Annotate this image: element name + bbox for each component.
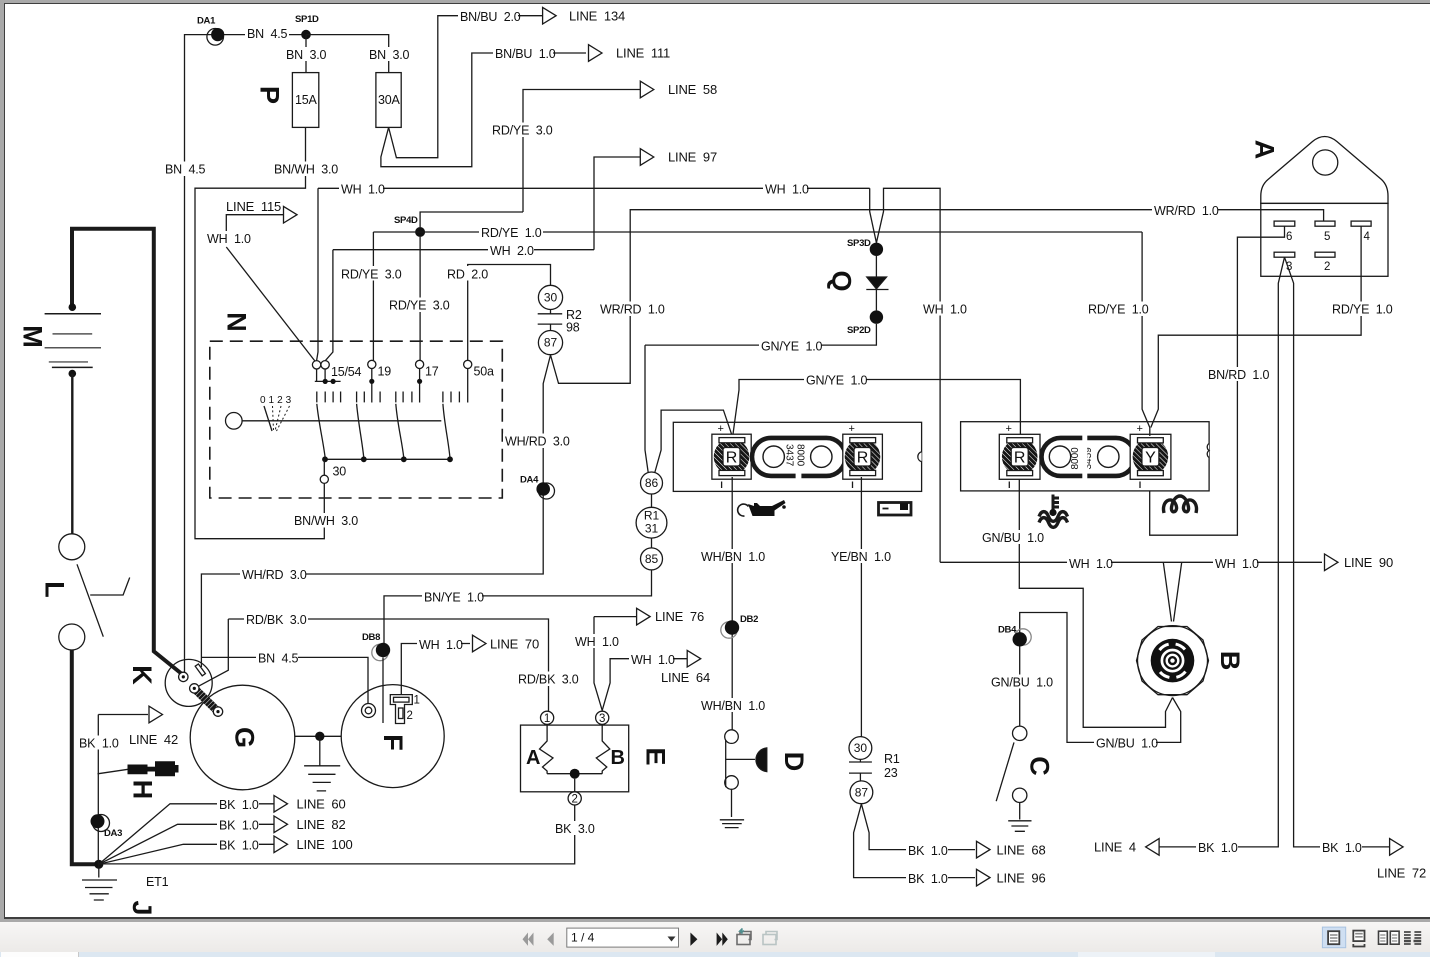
instrument cluster 1 box bbox=[673, 422, 921, 491]
pushbutton D top contact bbox=[725, 730, 739, 744]
minus mark bbox=[1139, 482, 1141, 489]
A pin 3 bbox=[1274, 252, 1295, 257]
wire BN 4.5 K to F bbox=[201, 657, 368, 703]
splice SP1D bbox=[301, 30, 311, 40]
label WR/RD 1.0 at connector A bbox=[1152, 203, 1219, 218]
wire BK 3.0 E pin2 to ET1 bbox=[99, 805, 575, 864]
label WH 1.0 bbox=[573, 634, 619, 649]
wire D to ground bbox=[720, 789, 744, 827]
wire RD/YE 1.0 horizontal long bbox=[373, 231, 1142, 233]
starter K circle bbox=[165, 659, 212, 706]
toolbar next page button bbox=[690, 933, 697, 946]
wire horn top V bbox=[1163, 562, 1181, 621]
lamp unit glow Y bbox=[1130, 434, 1171, 479]
horizontal scrollbar bbox=[0, 952, 1430, 957]
layout facing continuous bbox=[1404, 932, 1421, 944]
label RD/YE 3.0 bbox=[490, 123, 554, 138]
relay R2 terminal 30 bbox=[538, 285, 562, 309]
svg-text:1 / 4: 1 / 4 bbox=[571, 931, 595, 945]
wire G to F bbox=[295, 735, 341, 737]
ground at G-F junction bbox=[304, 736, 340, 791]
switch L top contact bbox=[59, 534, 85, 560]
wire BK fan to LINE 100 bbox=[99, 844, 274, 864]
wire 87 to LINE 96 bbox=[854, 804, 975, 878]
arrow LINE 64 bbox=[687, 650, 701, 667]
terminal 50a bbox=[464, 360, 472, 368]
lamp unit temp R bbox=[999, 434, 1040, 479]
contact comb group 3 bbox=[396, 392, 412, 403]
wire WR/RD 1.0 R2 87 to connector A pin5 bbox=[551, 210, 1324, 384]
connector DB8 bbox=[372, 644, 388, 660]
wire DA1 to SP1D bbox=[218, 34, 306, 36]
label BN/YE 1.0 bbox=[422, 590, 484, 605]
switch C top contact bbox=[1013, 726, 1027, 740]
horn B inner disc bbox=[1151, 639, 1195, 683]
wire WH 2.0 down to 15/54 right bbox=[325, 250, 333, 361]
label RD/YE 3.0 bbox=[339, 266, 403, 282]
F plug pin 1 bbox=[394, 697, 410, 702]
F plug housing bbox=[390, 695, 412, 724]
connector DB4 bbox=[1015, 629, 1031, 645]
K screw terminal 1 bbox=[179, 672, 188, 681]
instrument cluster 2 box bbox=[961, 422, 1210, 491]
arrow LINE 96 bbox=[977, 869, 991, 886]
relay R1-31 body bbox=[636, 507, 667, 538]
switch wipers bbox=[317, 404, 450, 458]
wire SP1D down to fuse 15A bbox=[305, 35, 307, 73]
wire BN/RD 1.0 pin6 to Y lamp bbox=[1150, 226, 1285, 535]
terminal 15/54 circles bbox=[312, 361, 320, 369]
label GN/YE 1.0 bbox=[804, 373, 867, 388]
A pin 4 bbox=[1351, 221, 1371, 226]
label GN/BU 1.0 bbox=[989, 675, 1053, 690]
A pin 2 bbox=[1315, 252, 1335, 257]
contact comb group 2 bbox=[357, 392, 381, 403]
label BN/WH 3.0 bbox=[272, 162, 338, 177]
label BK 1.0 bbox=[217, 818, 259, 833]
label BN 3.0 bbox=[284, 47, 327, 62]
switch bus bar bbox=[325, 458, 450, 460]
switch L blade bbox=[77, 564, 103, 636]
E pin 3 bbox=[596, 711, 609, 724]
wire LINE58 riser to SP4D bbox=[420, 212, 523, 227]
wire SP1D right down to fuse 30A bbox=[306, 35, 389, 73]
minus mark bbox=[852, 482, 854, 489]
connector A hole bbox=[1313, 150, 1338, 175]
K bolt bar bbox=[194, 688, 218, 711]
arrow LINE 100 bbox=[274, 836, 288, 853]
wire E bus to pin 2 bbox=[574, 779, 576, 792]
connector DA3 bbox=[93, 815, 110, 832]
label BK 1.0 bbox=[217, 838, 259, 853]
wire E pin3 funnel right to LINE 64 bbox=[602, 659, 687, 711]
label WH 1.0 right bbox=[1213, 556, 1259, 571]
wire BN 4.5 DA1 to K bbox=[185, 35, 218, 672]
label BK 1.0 bbox=[906, 843, 948, 858]
layout facing bbox=[1379, 931, 1388, 944]
lamp unit battery R bbox=[843, 434, 883, 479]
wire BK fan to LINE 60 bbox=[99, 804, 274, 865]
A pin 5 bbox=[1315, 221, 1335, 226]
terminal 17 bbox=[416, 360, 424, 368]
cluster 2 gauge pill bbox=[1042, 438, 1136, 476]
layout single page selected bbox=[1322, 927, 1345, 948]
label RD/BK 3.0 bbox=[244, 612, 308, 627]
A pin 6 bbox=[1274, 221, 1295, 226]
label BN 3.0 bbox=[367, 47, 410, 62]
label BN/BU 1.0 bbox=[493, 46, 556, 61]
arrow LINE 58 bbox=[640, 81, 654, 98]
arrow LINE 72 bbox=[1390, 839, 1404, 856]
label BN/BU 2.0 bbox=[458, 9, 521, 24]
node battery top bbox=[69, 303, 77, 311]
gauge circles bbox=[763, 446, 784, 467]
label RD/YE 1.0 bbox=[1086, 302, 1150, 317]
fuse 30A bbox=[376, 73, 401, 128]
cluster 2 notch bbox=[1207, 444, 1209, 458]
pushbutton D bottom contact bbox=[725, 776, 739, 790]
label WH 1.0 bbox=[417, 637, 463, 652]
wire fuse 30A funnel to LINE 134 bbox=[389, 16, 542, 158]
wire BN/YE 85 to DB8 bbox=[384, 570, 652, 643]
K fusible link bbox=[195, 664, 205, 676]
node battery bottom bbox=[69, 370, 77, 378]
plug H bbox=[128, 765, 148, 775]
label GN/BU 1.0 lower bbox=[1094, 736, 1158, 751]
horn B outer bbox=[1137, 627, 1209, 695]
wire RD 2.0 terminal 50a to relay R2 bbox=[468, 265, 551, 361]
pushbutton D blade bbox=[725, 740, 727, 787]
generator G circle bbox=[190, 685, 295, 790]
K bolt screw upper bbox=[190, 684, 199, 693]
wire SP4D down to terminal 17 bbox=[419, 237, 421, 360]
label WH 2.0 bbox=[488, 243, 534, 258]
label WH 1.0 vertical bbox=[921, 302, 967, 317]
relay R1-31 stems bbox=[651, 494, 653, 548]
wire WH 2.0 LINE 97 riser bbox=[594, 157, 640, 250]
pushbutton D actuator bbox=[726, 758, 755, 760]
E pin 1 bbox=[541, 711, 554, 724]
wire to plug H bbox=[98, 769, 129, 774]
wire 86 funnel left GN/YE bbox=[645, 345, 648, 472]
relay R1-23 terminal 30 bbox=[849, 737, 872, 760]
relay R1-31 terminal 86 bbox=[641, 472, 663, 494]
wire RD/YE 3.0 to LINE 58 bbox=[523, 90, 640, 213]
E internal bus bbox=[547, 773, 602, 775]
E pin 2 bbox=[568, 792, 581, 805]
label BN 4.5 bbox=[245, 26, 289, 41]
connector DA1 bbox=[207, 29, 224, 46]
relay R2 terminal 87 bbox=[538, 331, 562, 355]
arrow LINE 60 bbox=[274, 796, 288, 813]
cluster 1 notch bbox=[918, 452, 922, 462]
label RD/YE 3.0 bbox=[387, 298, 451, 313]
K bolt screw lower bbox=[213, 707, 222, 716]
label WH/RD 3.0 bbox=[240, 567, 307, 582]
arrow LINE 134 bbox=[543, 7, 557, 24]
wire WH diagonal into 15/54 bbox=[226, 247, 315, 361]
arrow LINE 42 bbox=[149, 706, 163, 723]
connector A body bbox=[1261, 137, 1388, 204]
sensor F circle bbox=[341, 685, 444, 788]
contact comb group 4 bbox=[443, 392, 460, 403]
label WH/BN 1.0 lower bbox=[699, 698, 765, 713]
wire GN/YE 1.0 SP2D to relay 86 bbox=[645, 324, 876, 345]
label BN/RD 1.0 bbox=[1206, 367, 1269, 382]
wire RD/YE 1.0 long riser to Y lamp plus bbox=[1142, 232, 1150, 436]
label WH 1.0 bbox=[629, 652, 675, 667]
arrow LINE 76 bbox=[637, 608, 651, 625]
wire WH/BN 1.0 lamp to DB2 to D bbox=[731, 477, 733, 730]
F nut terminal bbox=[362, 704, 376, 718]
label WH 1.0 bbox=[339, 182, 385, 197]
wire WH 2.0 horizontal bbox=[333, 249, 594, 251]
lamp unit oil R bbox=[712, 434, 751, 479]
label WR/RD 1.0 vertical bbox=[598, 302, 665, 317]
wire pin3 to LINE 4 bbox=[1158, 257, 1285, 847]
wire E pin3 funnel left bbox=[594, 617, 602, 711]
wire DA3 riser bbox=[97, 715, 99, 865]
E solenoid A zigzag bbox=[540, 724, 554, 773]
toolbar page combobox bbox=[567, 928, 679, 947]
layout continuous bbox=[1353, 931, 1364, 942]
toolbar first page button bbox=[523, 933, 534, 946]
wire WR/RD inside connector A bbox=[1261, 210, 1324, 221]
wire BK fan to LINE 82 bbox=[99, 824, 274, 864]
wire GN/BU 1.0 R lamp to horn left branch bbox=[1019, 479, 1172, 727]
wire WH 1.0 horizontal main bbox=[318, 187, 870, 189]
arrow LINE 111 bbox=[589, 45, 603, 62]
label RD/YE 1.0 bbox=[1330, 302, 1394, 317]
switch C bottom contact bbox=[1013, 788, 1027, 802]
label WH 1.0 bbox=[205, 231, 251, 246]
fuel shutoff E box bbox=[521, 725, 629, 792]
switch L bottom contact bbox=[59, 624, 85, 650]
wire LINE 115 bbox=[226, 215, 284, 236]
wire RD/BK 3.0 K to E pin1 bbox=[198, 619, 548, 711]
label WH/BN 1.0 bbox=[699, 549, 765, 564]
terminal 19 bbox=[368, 360, 376, 368]
battery positive thick wire bbox=[72, 229, 183, 675]
label BN/WH 3.0 lower bbox=[292, 513, 358, 528]
label YE/BN 1.0 bbox=[829, 549, 891, 564]
wire RD/YE 1.0 pin4 to Y lamp plus bbox=[1151, 226, 1361, 427]
relay R1-23 coil bars bbox=[849, 759, 872, 781]
switch L actuator bbox=[90, 578, 130, 596]
ground ET1 bbox=[82, 864, 117, 900]
label WH 1.0 bbox=[1067, 556, 1113, 571]
label GN/YE 1.0 bbox=[759, 339, 822, 354]
arrow LINE 70 bbox=[473, 635, 487, 652]
toolbar previous view button bbox=[737, 929, 751, 945]
arrow LINE 4 bbox=[1146, 839, 1160, 856]
wire fuse 30A funnel to LINE 111 bbox=[381, 53, 586, 167]
label BK 1.0 bbox=[217, 797, 259, 812]
relay R2 coil bars bbox=[538, 310, 563, 331]
relay R1-23 terminal 87 bbox=[850, 781, 873, 804]
arrow LINE 97 bbox=[640, 149, 654, 166]
wire LINE 42 bbox=[98, 714, 148, 716]
wire 86 funnel right bbox=[655, 410, 733, 472]
wire LINE 76 bbox=[594, 616, 637, 618]
splice SP2D bbox=[870, 310, 883, 323]
cluster 1 gauge pill bbox=[752, 438, 846, 476]
oil can icon bbox=[748, 500, 786, 516]
wire pin3 to LINE 72 bbox=[1285, 257, 1391, 847]
switch C blade bbox=[996, 742, 1014, 801]
label WH/RD 3.0 vertical bbox=[503, 434, 570, 449]
wire 87 to LINE 68 bbox=[861, 804, 975, 850]
glow plug coil icon bbox=[1163, 496, 1196, 513]
wire WH/RD 3.0 K to relay R2 87 bbox=[201, 355, 550, 667]
relay R1-31 terminal 85 bbox=[641, 548, 663, 570]
label RD/BK 3.0 vertical bbox=[516, 672, 580, 687]
toolbar next view button (disabled) bbox=[763, 932, 777, 945]
label BN 4.5 vertical wire bbox=[163, 162, 206, 177]
wire battery to switch L bbox=[71, 374, 73, 534]
contact comb group 1 bbox=[317, 392, 341, 403]
label GN/BU 1.0 bbox=[980, 530, 1044, 545]
label BK 1.0 bbox=[906, 871, 948, 886]
ground at C bbox=[1008, 803, 1031, 832]
fuse P 15A bbox=[292, 73, 318, 128]
toolbar background bbox=[0, 922, 1430, 952]
splice SP3D bbox=[870, 188, 940, 562]
wire fuse 15A to BN/WH to ignition switch terminal 30 bbox=[195, 127, 324, 538]
F plug pin 2 bbox=[399, 708, 404, 719]
label WH 1.0 right bbox=[763, 182, 809, 197]
connector DB2 bbox=[721, 622, 737, 638]
minus mark bbox=[1008, 482, 1010, 489]
label BK 1.0 bbox=[1196, 840, 1238, 855]
battery negative thick wire to ET1 bbox=[72, 650, 99, 864]
arrow LINE 82 bbox=[274, 816, 288, 833]
diode Q bbox=[875, 256, 877, 277]
wire WH down to 15/54 bbox=[317, 188, 318, 360]
ground junction node bbox=[94, 860, 103, 869]
temperature icon bbox=[1053, 495, 1059, 513]
arrow LINE 115 bbox=[284, 206, 298, 223]
switch actuator bbox=[226, 413, 243, 430]
gauge circles bbox=[1049, 446, 1070, 467]
battery M plates bbox=[45, 313, 101, 315]
wire RD/YE down to terminal 19 bbox=[372, 232, 374, 360]
terminal 30 bbox=[320, 475, 328, 483]
wire GN/YE 1.0 lower to cluster2 bbox=[733, 380, 1021, 437]
label BK 3.0 bbox=[553, 821, 597, 836]
label RD 2.0 bbox=[445, 266, 489, 282]
label BK 1.0 bbox=[1320, 840, 1362, 855]
label BN 4.5 bbox=[256, 651, 299, 666]
label BK 1.0 bbox=[77, 736, 119, 751]
splice SP4D bbox=[415, 227, 425, 237]
toolbar last page button bbox=[717, 933, 728, 946]
connector DA4 bbox=[539, 483, 555, 499]
wire YE/BN 1.0 lamp to relay R1-23 bbox=[860, 477, 862, 737]
battery icon bbox=[879, 503, 912, 516]
arrow LINE 68 bbox=[977, 841, 991, 858]
wire WH 1.0 to LINE 90 bbox=[940, 561, 1322, 563]
ignition switch N dashed box bbox=[210, 341, 503, 498]
terminal 15/54 bracket bbox=[315, 369, 341, 381]
label RD/YE 1.0 bbox=[479, 225, 543, 240]
node G-F junction bbox=[315, 732, 324, 741]
wire DB8 to F plug bbox=[382, 658, 384, 724]
toolbar previous page button bbox=[547, 933, 554, 946]
E solenoid B zigzag bbox=[596, 724, 610, 773]
position indicator lines bbox=[264, 406, 272, 431]
wire horn bottom V right to DB4 net bbox=[1020, 613, 1181, 743]
wire WH 1.0 to LINE 70 bbox=[401, 644, 470, 695]
minus mark bbox=[721, 482, 723, 489]
arrow LINE 90 bbox=[1325, 554, 1339, 571]
